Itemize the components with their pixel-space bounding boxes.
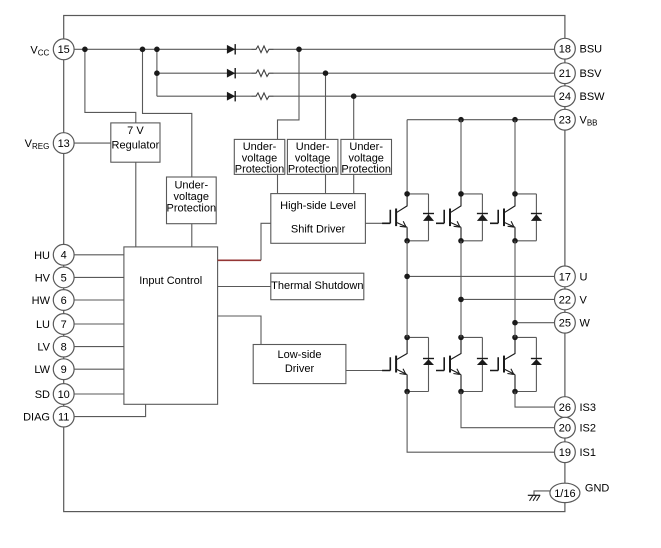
node B (VCC junction) — [140, 47, 146, 53]
pin 6 (HW) — [53, 290, 74, 311]
pin 1/16 (GND) — [550, 483, 580, 502]
svg-text:DIAG: DIAG — [23, 412, 50, 424]
wire HW to input control — [64, 299, 124, 301]
pin 9 (LW) — [53, 359, 74, 380]
wire VBB to high-side U collector — [406, 120, 408, 194]
svg-text:LU: LU — [36, 319, 50, 331]
pin 7 (LU) — [53, 314, 74, 335]
svg-text:1/16: 1/16 — [554, 488, 575, 500]
svg-text:Input Control: Input Control — [139, 275, 202, 287]
svg-text:V: V — [580, 294, 588, 306]
svg-text:Under-: Under- — [174, 180, 208, 192]
block Input Control — [124, 247, 218, 404]
svg-text:10: 10 — [58, 389, 70, 401]
svg-text:Regulator: Regulator — [112, 140, 160, 152]
svg-text:HU: HU — [34, 250, 50, 262]
pin 15 (VCC) — [53, 39, 74, 60]
svg-text:IS2: IS2 — [580, 423, 597, 435]
pin 25 (W) — [555, 312, 576, 333]
svg-text:20: 20 — [559, 423, 571, 435]
transistor Q4 low-side U IGBT with freewheel diode — [382, 335, 434, 395]
resistor R2 — [252, 70, 274, 77]
transistor Q2 high-side V IGBT with freewheel diode — [436, 191, 488, 244]
wire VBB to high-side V collector — [460, 120, 462, 194]
node G (row 3 junction) — [351, 93, 357, 99]
wire VREG to regulator — [64, 142, 111, 144]
svg-text:Low-side: Low-side — [277, 349, 321, 361]
transistor Q3 high-side W IGBT with freewheel diode — [490, 191, 542, 244]
wire UVP2 to high-side driver — [325, 174, 327, 193]
wire VCC row to BSU (row 1) — [64, 48, 565, 50]
wire SD to input control — [64, 393, 124, 395]
svg-text:21: 21 — [559, 68, 571, 80]
diode D2 (bootstrap BSV) — [227, 68, 235, 78]
block Under-voltage Protection 1 (BSU) — [234, 139, 284, 175]
resistor R3 — [252, 93, 274, 100]
wire to high-side driver — [261, 223, 271, 260]
svg-text:Under-: Under- — [349, 141, 383, 153]
pin 19 (IS1) — [555, 442, 576, 463]
svg-text:HW: HW — [32, 295, 51, 307]
svg-text:7: 7 — [61, 319, 67, 331]
wire DIAG to input control — [64, 404, 146, 416]
pin 17 (U) — [555, 266, 576, 287]
svg-text:IS1: IS1 — [580, 447, 597, 459]
svg-text:Protection: Protection — [167, 202, 217, 214]
wire low-side driver to gates — [346, 370, 390, 372]
pin 5 (HV) — [53, 267, 74, 288]
wire row 2 to BSV — [157, 72, 565, 74]
wire VCC to left under-voltage protection — [143, 49, 192, 177]
wire IS1 from low-side U emitter — [407, 392, 565, 453]
transistor Q5 low-side V IGBT with freewheel diode — [436, 335, 488, 395]
block Low-side Driver — [253, 345, 346, 384]
wire IS3 from low-side W emitter — [515, 392, 565, 408]
svg-text:HV: HV — [35, 272, 51, 284]
svg-text:Protection: Protection — [341, 163, 391, 175]
pin 21 (BSV) — [555, 63, 576, 84]
svg-text:High-side Level: High-side Level — [280, 200, 356, 212]
node F (row 2 junction) — [323, 70, 329, 76]
pin 22 (V) — [555, 289, 576, 310]
svg-text:Under-: Under- — [243, 141, 277, 153]
transistor Q6 low-side W IGBT with freewheel diode — [490, 335, 542, 395]
wire GND lead — [534, 491, 550, 495]
svg-text:GND: GND — [585, 483, 610, 495]
node A (VCC junction to regulator) — [82, 47, 88, 53]
svg-text:Under-: Under- — [296, 141, 330, 153]
node V tap — [458, 297, 464, 303]
svg-text:25: 25 — [559, 318, 571, 330]
svg-text:4: 4 — [61, 250, 67, 262]
wire row2 to under-voltage protection 2 — [325, 73, 327, 139]
svg-text:18: 18 — [559, 44, 571, 56]
node C (VCC row junction) — [154, 47, 160, 53]
wire VBB to high-side W collector — [514, 120, 516, 194]
block Under-voltage Protection 2 (BSV) — [287, 139, 338, 175]
svg-text:BSW: BSW — [580, 91, 606, 103]
wire high-side driver to gates — [365, 222, 390, 224]
pin 10 (SD) — [53, 384, 74, 405]
svg-text:W: W — [580, 318, 591, 330]
svg-text:LW: LW — [34, 364, 50, 376]
wire input control to high-side driver (red) — [218, 259, 261, 261]
svg-text:11: 11 — [58, 412, 69, 424]
pin 23 (VBB) — [555, 109, 576, 130]
svg-text:9: 9 — [61, 364, 67, 376]
pin 11 (DIAG) — [53, 406, 74, 427]
node VBB-W column — [512, 117, 518, 123]
svg-text:SD: SD — [35, 389, 50, 401]
diode D3 (bootstrap BSW) — [227, 91, 235, 101]
wire U phase column — [406, 241, 408, 338]
wire HU to input control — [64, 254, 124, 256]
block High-side Level Shift Driver — [271, 194, 366, 244]
svg-text:BSV: BSV — [580, 68, 603, 80]
node W tap — [512, 320, 518, 326]
svg-text:13: 13 — [58, 138, 70, 150]
wire W output — [515, 322, 565, 324]
pin 8 (LV) — [53, 336, 74, 357]
block Under-voltage Protection (VREG monitor) — [167, 177, 217, 224]
wire input control to low-side driver — [218, 316, 261, 345]
svg-text:LV: LV — [37, 342, 50, 354]
node E (row 1 junction) — [296, 47, 302, 53]
svg-text:17: 17 — [559, 271, 571, 283]
block 7 V Regulator — [111, 123, 160, 162]
wire VBB rail — [407, 119, 565, 121]
svg-text:Thermal Shutdown: Thermal Shutdown — [271, 280, 363, 292]
pin 18 (BSU) — [555, 38, 576, 59]
pin 4 (HU) — [53, 244, 74, 265]
wire LU to input control — [64, 323, 124, 325]
svg-text:26: 26 — [559, 402, 571, 414]
wire LV to input control — [64, 346, 124, 348]
svg-text:VREG: VREG — [25, 138, 50, 151]
pin 13 (VREG) — [53, 133, 74, 154]
svg-text:5: 5 — [61, 272, 67, 284]
wire HV to input control — [64, 276, 124, 278]
pin 24 (BSW) — [555, 86, 576, 107]
block Under-voltage Protection 3 (BSW) — [341, 139, 392, 175]
svg-text:7 V: 7 V — [127, 125, 144, 137]
svg-text:6: 6 — [61, 295, 67, 307]
IC boundary outline — [64, 16, 565, 512]
wire VCC to 7V regulator — [85, 49, 136, 123]
pin 20 (IS2) — [555, 417, 576, 438]
svg-text:23: 23 — [559, 115, 571, 127]
wire regulator to input control — [135, 162, 137, 247]
wire W phase column — [514, 241, 516, 338]
diode D1 (bootstrap BSU) — [227, 44, 235, 54]
svg-text:voltage: voltage — [174, 191, 209, 203]
wire input control to thermal shutdown — [218, 286, 271, 288]
wire V output — [461, 298, 565, 300]
wire V phase column — [460, 241, 462, 338]
wire UVP1 to high-side driver — [277, 174, 279, 193]
node U tap — [404, 274, 410, 280]
svg-text:15: 15 — [58, 44, 70, 56]
node D (row 2 junction) — [154, 70, 160, 76]
wire row1 to under-voltage protection 1 — [278, 49, 300, 139]
resistor R1 — [252, 46, 274, 53]
wire IS2 from low-side V emitter — [461, 392, 565, 428]
node VBB-V column — [458, 117, 464, 123]
svg-text:24: 24 — [559, 91, 571, 103]
svg-text:VCC: VCC — [30, 44, 49, 57]
svg-text:8: 8 — [61, 342, 67, 354]
svg-text:Shift Driver: Shift Driver — [291, 224, 346, 236]
pin 26 (IS3) — [555, 397, 576, 418]
wire under-voltage protection to input control — [191, 224, 193, 247]
svg-text:19: 19 — [559, 447, 571, 459]
svg-text:IS3: IS3 — [580, 402, 597, 414]
svg-text:VBB: VBB — [580, 115, 598, 128]
ground symbol — [528, 495, 540, 501]
svg-text:22: 22 — [559, 294, 571, 306]
wire VCC to rows 2 and 3 — [156, 49, 158, 96]
block Thermal Shutdown — [271, 273, 364, 300]
svg-text:U: U — [580, 271, 588, 283]
svg-text:BSU: BSU — [580, 44, 603, 56]
wire UVP3 to high-side driver — [353, 174, 355, 193]
wire row3 to under-voltage protection 3 — [353, 96, 355, 139]
svg-text:Protection: Protection — [288, 163, 338, 175]
transistor Q1 high-side U IGBT with freewheel diode — [382, 191, 434, 244]
svg-text:Driver: Driver — [285, 363, 315, 375]
wire LW to input control — [64, 368, 124, 370]
wire row 3 to BSW — [157, 95, 565, 97]
wire U output — [407, 275, 565, 277]
svg-text:Protection: Protection — [235, 163, 285, 175]
